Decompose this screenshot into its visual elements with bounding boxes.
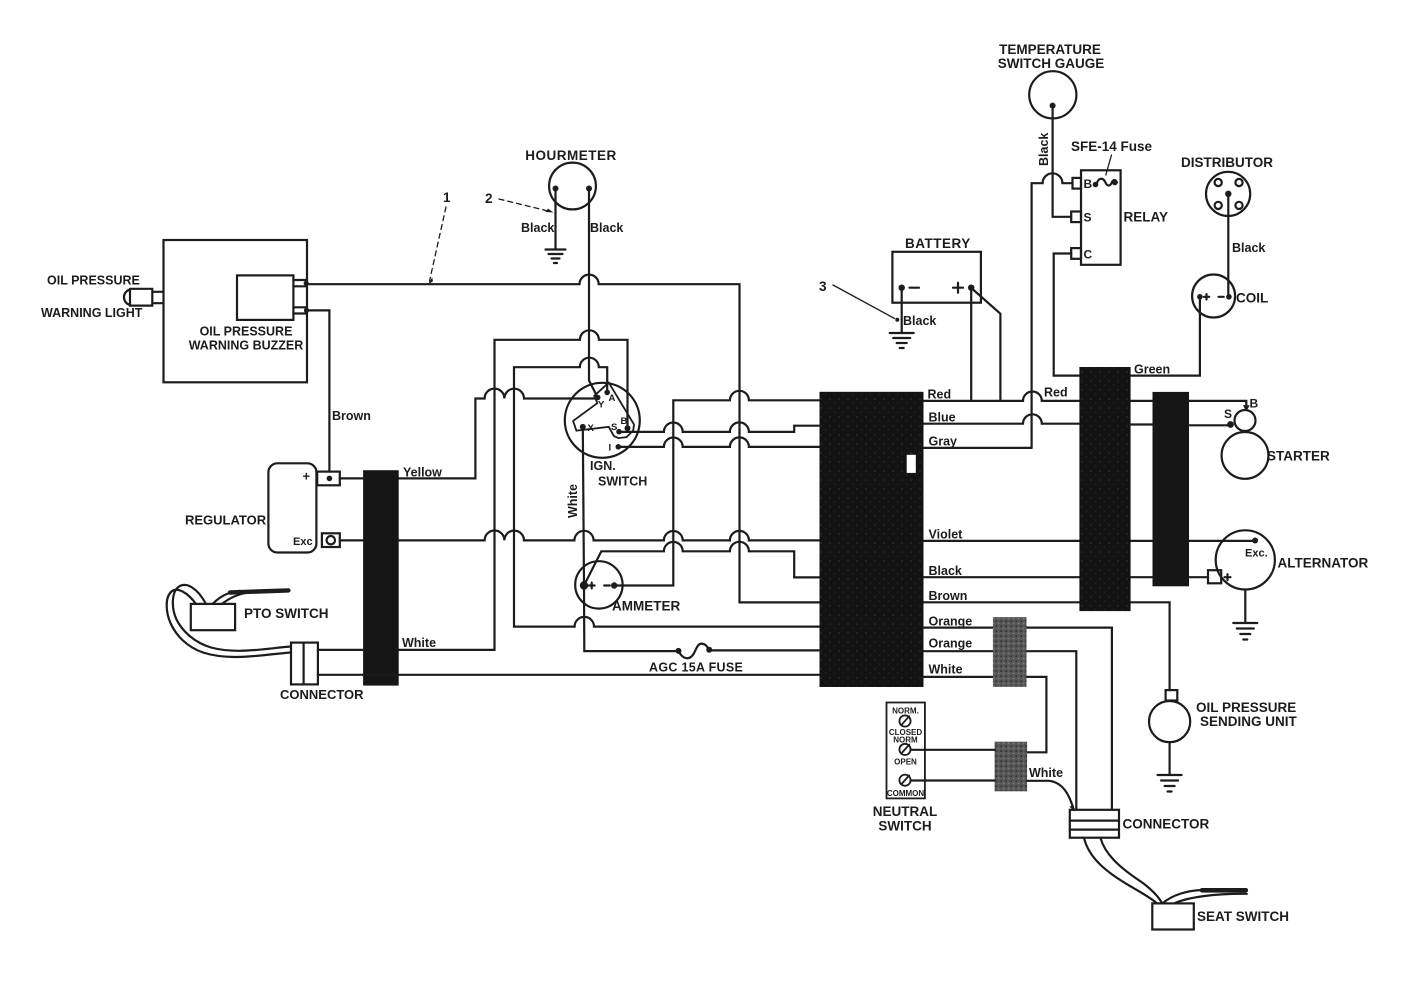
svg-text:SWITCH GAUGE: SWITCH GAUGE (998, 56, 1105, 71)
label HOURMETER (525, 148, 617, 163)
wire: coil + down and left to relay harness bar (Green) (1130, 297, 1200, 376)
callout 2 with dashed leader (485, 191, 493, 206)
svg-text:A: A (609, 393, 616, 404)
svg-text:IGN.: IGN. (590, 459, 616, 473)
label Brown (332, 409, 371, 423)
label Black (left of hourmeter wire) (521, 221, 554, 235)
ignition switch circle (565, 383, 640, 458)
svg-text:Violet: Violet (929, 527, 964, 541)
svg-text:DISTRIBUTOR: DISTRIBUTOR (1181, 155, 1273, 170)
hourmeter terminal dots (553, 186, 593, 192)
svg-text:Brown: Brown (929, 589, 968, 603)
ground below alternator (1233, 623, 1257, 640)
svg-text:Exc: Exc (293, 536, 313, 548)
svg-text:X: X (588, 423, 595, 434)
svg-text:ALTERNATOR: ALTERNATOR (1278, 556, 1369, 571)
svg-text:Black: Black (929, 564, 962, 578)
label REGULATOR (185, 513, 267, 528)
alternator Exc terminal dot (1245, 538, 1268, 560)
wire: connector to bar (white row) (318, 649, 363, 651)
PTO switch cable loop (167, 585, 291, 657)
label RELAY (1124, 210, 1169, 225)
svg-text:Black: Black (903, 314, 936, 328)
oil pressure warning light bulb (124, 289, 164, 306)
connector (left, PTO) (291, 643, 318, 685)
starter terminal letters B S (1224, 397, 1259, 422)
wire: Orange row 1 to bottom connector (924, 628, 1112, 810)
wire: Blue row bar2 to bar3 to starter S (1130, 423, 1229, 426)
svg-text:NEUTRAL: NEUTRAL (873, 804, 938, 819)
ammeter terminals and markings (580, 581, 618, 589)
svg-text:White: White (1029, 766, 1063, 780)
svg-text:AGC 15A FUSE: AGC 15A FUSE (649, 661, 743, 675)
buzzer terminal dots (304, 281, 310, 313)
ign switch terminal dots Y A B S X I (580, 390, 631, 450)
wire: relay B left, hop over gauge wire, down to Gray row (1032, 173, 1073, 448)
relay box (1081, 170, 1121, 264)
svg-text:HOURMETER: HOURMETER (525, 148, 617, 163)
svg-text:COMMON: COMMON (887, 789, 925, 798)
relay terminal squares B S C (1071, 178, 1081, 259)
svg-text:S: S (611, 422, 617, 433)
wire: S net (S dot right with hops over x=673.3 and x=739.5, jog up into harness) (619, 422, 820, 432)
starter solenoid circle (1235, 410, 1256, 431)
wire: connector bottom row passing under bar to center harness (318, 674, 820, 676)
connector block (gray, harness to neutral/seat circuits) (993, 617, 1027, 687)
wire: battery plus diagonal tap down to Red row (973, 290, 1000, 401)
svg-text:B: B (1250, 397, 1259, 411)
neutral switch internal labels (887, 707, 925, 799)
oil pressure warning outer box (164, 240, 308, 382)
svg-text:OPEN: OPEN (894, 758, 917, 767)
svg-text:REGULATOR: REGULATOR (185, 513, 267, 528)
ground below hourmeter (546, 250, 566, 264)
wire: alternator to ground (1244, 590, 1246, 623)
svg-text:Exc.: Exc. (1245, 548, 1268, 560)
battery terminals (899, 285, 975, 291)
wire: Violet row to alternator Exc (924, 540, 1256, 542)
svg-text:Brown: Brown (332, 409, 371, 423)
bottom connector (1070, 810, 1119, 838)
wire: Red row bar2 to bar3 to starter B (1130, 401, 1247, 409)
wire: neutral switch middle terminal to block 2 (911, 749, 995, 751)
label White (neutral switch wire) (1029, 766, 1063, 780)
label CONNECTOR (bottom) (1123, 817, 1210, 832)
svg-text:Green: Green (1134, 363, 1170, 377)
label STARTER (1267, 449, 1330, 464)
wire: hourmeter left to ground (554, 190, 556, 249)
svg-text:PTO SWITCH: PTO SWITCH (244, 606, 329, 621)
label CONNECTOR (left) (280, 687, 364, 702)
wire: Orange row 2 to bottom connector (924, 651, 1077, 810)
label COIL (1236, 291, 1268, 306)
wire: regulator + to harness bar (340, 477, 363, 479)
ignition switch body plate (573, 383, 634, 439)
ground below battery (890, 333, 914, 348)
label IGN. SWITCH (590, 459, 647, 489)
wire: Gray row right of harness joining relay B wire (924, 447, 1032, 449)
svg-text:Black: Black (1037, 133, 1051, 166)
label BATTERY (905, 236, 971, 251)
svg-text:SEAT SWITCH: SEAT SWITCH (1197, 909, 1289, 924)
svg-text:Blue: Blue (929, 410, 956, 424)
regulator Exc terminal (322, 533, 340, 547)
starter main circle (1222, 432, 1269, 479)
wire: main feed from buzzer top terminal, hop over hourmeter wire, down at x=739.5, into center harness (Brown row) (306, 275, 820, 603)
wire: relay C left and down to relay harness bar (1054, 254, 1080, 376)
center harness bar (main black harness) (820, 392, 924, 687)
label AGC 15A FUSE (649, 661, 743, 675)
svg-text:Red: Red (1044, 386, 1068, 400)
wire: Black row to alternator + tab (924, 576, 1209, 578)
wire: battery plus straight down to Red row (970, 290, 972, 401)
label SEAT SWITCH (1197, 909, 1289, 924)
svg-text:White: White (929, 663, 963, 677)
PTO switch box (191, 604, 235, 630)
svg-text:Orange: Orange (929, 614, 973, 628)
harness bar 3 (1153, 392, 1190, 586)
seat switch cable from connector (1084, 838, 1162, 903)
svg-text:WARNING BUZZER: WARNING BUZZER (189, 339, 304, 353)
distributor towers (1215, 179, 1243, 209)
hourmeter (549, 163, 596, 210)
label DISTRIBUTOR (1181, 155, 1273, 170)
label Yellow (403, 466, 442, 480)
svg-text:Red: Red (928, 388, 952, 402)
wire: block 2 white wire to bottom connector (1027, 781, 1074, 810)
wire: Exc/Violet row from bar right across with hops (over 494.5,514,584,673.3,739.5) (399, 531, 820, 541)
wire: B net (B dot up, left with hop, down x=494.5, left to bar at y=650) (399, 330, 628, 650)
svg-text:Y: Y (598, 400, 605, 411)
svg-text:2: 2 (485, 191, 493, 206)
svg-text:3: 3 (819, 279, 827, 294)
label TEMPERATURE SWITCH GAUGE (998, 42, 1105, 71)
svg-text:COIL: COIL (1236, 291, 1268, 306)
wire: neutral switch common terminal to block 2 (911, 779, 995, 781)
labels Violet Black Brown Orange Orange White (929, 527, 973, 676)
svg-text:Black: Black (590, 221, 623, 235)
svg-text:B: B (1084, 177, 1093, 191)
svg-text:Gray: Gray (929, 434, 958, 448)
fuse AGC 15A (inline squiggle) (679, 644, 710, 659)
label Green (1134, 363, 1170, 377)
wire: I net (I dot right with hops into harness) (618, 437, 819, 446)
wire: ammeter right terminal up at x=673.3 then right to harness Red row (hop over 739.5) (614, 391, 819, 586)
ammeter (575, 561, 622, 608)
regulator box (268, 463, 316, 552)
labels Red Blue Gray (928, 386, 1068, 449)
ign switch terminal letters (588, 393, 628, 454)
battery box (892, 252, 981, 303)
wire: battery minus to ground (901, 290, 903, 333)
wire: hourmeter right down to ign switch Y (589, 190, 598, 398)
svg-text:TEMPERATURE: TEMPERATURE (999, 42, 1101, 57)
svg-text:AMMETER: AMMETER (612, 599, 680, 614)
wire: Yellow net (bar to vertical x=475.4 up, right to Y dot, hops over 494.5/514) (399, 389, 598, 479)
svg-text:OIL PRESSURE: OIL PRESSURE (47, 274, 140, 288)
neutral switch box (887, 703, 925, 799)
wire: regulator Exc to harness bar (340, 539, 363, 541)
temperature switch gauge (1029, 71, 1076, 118)
wire: Blue row right of harness (hop over x=1032.4) (924, 414, 1080, 423)
seat switch box (1152, 903, 1194, 929)
svg-text:WARNING LIGHT: WARNING LIGHT (41, 306, 143, 320)
connector block 2 (gray, neutral switch) (995, 742, 1028, 792)
svg-text:RELAY: RELAY (1124, 210, 1169, 225)
svg-text:BATTERY: BATTERY (905, 236, 971, 251)
svg-text:C: C (1084, 248, 1093, 262)
callout 3 with leader (819, 279, 827, 294)
svg-text:Black: Black (521, 221, 554, 235)
svg-text:White: White (402, 636, 436, 650)
svg-text:SFE-14 Fuse: SFE-14 Fuse (1071, 139, 1153, 154)
distributor (1206, 172, 1250, 216)
label OIL PRESSURE SENDING UNIT (1196, 700, 1298, 729)
regulator + terminal (317, 472, 340, 486)
label OIL PRESSURE WARNING LIGHT (41, 274, 143, 321)
wire: fuse row to center harness (709, 649, 819, 651)
svg-text:S: S (1084, 211, 1092, 225)
relay terminal letters (1084, 177, 1093, 262)
coil (1192, 275, 1235, 318)
wire: buzzer bottom terminal Brown wire down to regulator + (307, 310, 330, 471)
svg-text:NORM.: NORM. (892, 707, 919, 716)
wire: gauge black wire down to relay S (1053, 106, 1072, 217)
svg-text:Yellow: Yellow (403, 466, 442, 480)
label Black (right of hourmeter wire) (590, 221, 623, 235)
relay harness bar 2 (1079, 367, 1130, 611)
wire: A net (A dot up, left with hop over hourmeter wire, down x=514, right to harness with hop over x=584) (514, 358, 820, 627)
wire: distributor to coil (black) (1227, 194, 1229, 297)
svg-text:I: I (609, 443, 612, 454)
svg-text:NORM: NORM (893, 736, 918, 745)
svg-text:STARTER: STARTER (1267, 449, 1330, 464)
alternator + tab (1208, 570, 1221, 583)
label White (vertical) (566, 484, 580, 518)
wire: Red row right of harness (hop over relay-B vertical x=1032.4) (924, 392, 1080, 401)
svg-text:Orange: Orange (929, 636, 973, 650)
label Black (battery ground) (903, 314, 936, 328)
alternator (1216, 530, 1275, 589)
svg-text:CONNECTOR: CONNECTOR (1123, 817, 1210, 832)
svg-text:SWITCH: SWITCH (598, 475, 647, 489)
svg-text:White: White (566, 484, 580, 518)
coil terminals (1197, 294, 1232, 300)
harness bar 1 (regulator/connector) (363, 470, 399, 685)
wire: sending unit to ground (1168, 742, 1170, 774)
oil pressure warning buzzer box (237, 275, 306, 320)
label NEUTRAL SWITCH (873, 804, 938, 834)
svg-text:OIL PRESSURE: OIL PRESSURE (1196, 700, 1296, 715)
ground below sending unit (1158, 775, 1182, 792)
label SFE-14 Fuse with leader (1071, 139, 1153, 154)
neutral switch screw terminals (899, 715, 910, 785)
wire: X white wire down through ammeter left terminal to fuse row (583, 427, 679, 651)
svg-text:Black: Black (1232, 241, 1265, 255)
svg-text:CONNECTOR: CONNECTOR (280, 687, 364, 702)
label AMMETER (612, 599, 680, 614)
seat switch pigtail wires (1163, 890, 1247, 903)
label ALTERNATOR (1278, 556, 1369, 571)
wire: Brown row to oil pressure sending unit (924, 602, 1170, 690)
svg-text:1: 1 (443, 190, 451, 205)
label Black (vertical, gauge wire) (1037, 133, 1051, 166)
callout 1 with dashed leader (443, 190, 451, 205)
SFE-14 fuse squiggle inside relay (1097, 179, 1118, 186)
svg-text:SENDING UNIT: SENDING UNIT (1200, 714, 1298, 729)
svg-text:S: S (1224, 407, 1232, 421)
oil pressure sending unit (1149, 690, 1190, 742)
svg-text:SWITCH: SWITCH (878, 819, 931, 834)
wire: ammeter needle wire up-right then to harness Black row (hops over 673.3, 739.5; jog down at 794) (584, 542, 820, 586)
svg-text:OIL PRESSURE: OIL PRESSURE (200, 325, 293, 339)
label White (right of bar1) (402, 636, 436, 650)
label PTO SWITCH (244, 606, 329, 621)
svg-text:+: + (303, 469, 311, 484)
label OIL PRESSURE WARNING BUZZER (189, 325, 304, 353)
label Black (distributor wire) (1232, 241, 1265, 255)
wire: White row to neutral-switch block (924, 677, 1047, 752)
